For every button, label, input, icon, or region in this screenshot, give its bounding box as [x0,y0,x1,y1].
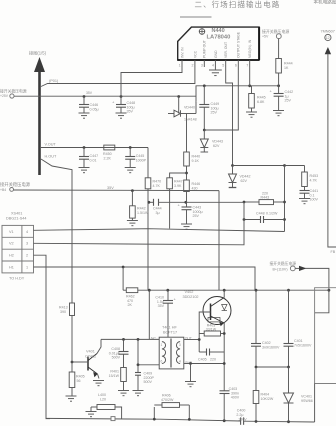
svg-text:T401 HF: T401 HF [162,326,177,330]
resistor R447 3.9K [167,178,183,229]
wire rail jog up to 85.8 [196,86,279,97]
ground below R442 [127,221,138,226]
title 行场扫描输出电路 [195,0,336,9]
node junction dots on +25V rail [83,84,280,98]
node dot [189,362,192,365]
svg-text:R444: R444 [284,62,293,66]
svg-text:15/1W: 15/1W [109,374,120,378]
svg-text:4.7K: 4.7K [310,179,318,183]
wire V402 base left and down [199,312,210,352]
wire V401 collector up to snubber rail [97,339,101,353]
capacitor C403 390n/400V on emitter S line [220,364,240,421]
pin labels of U1 [180,31,252,58]
node dots on x284.5 [283,201,286,221]
svg-text:400V: 400V [231,396,240,400]
wire T401 pin4 GND [184,363,191,365]
svg-text:V.OUT: V.OUT [45,143,57,147]
svg-text:160V: 160V [238,418,247,422]
svg-text:R405: R405 [76,375,85,379]
wire y=367 [256,366,289,368]
capacitor C449 100u/25V [195,100,219,131]
svg-text:VD442: VD442 [240,175,251,179]
svg-text:BCFT17: BCFT17 [163,330,177,334]
resistor R403 33/1W [199,323,224,336]
svg-text:OUTPUT STAGE: OUTPUT STAGE [237,31,241,58]
svg-text:XS401: XS401 [11,212,22,216]
wire pin7 to node [249,67,251,86]
svg-text:C446: C446 [90,103,99,107]
wire (P01) from arrow to pin 2 [41,67,195,87]
ground below R405 [66,396,77,401]
wire down to ground [190,364,192,382]
wire V402 emitter down [191,323,225,364]
svg-text:3: 3 [179,343,181,347]
svg-text:3n9/1600V: 3n9/1600V [262,345,280,349]
wire x=219 vertical from +B rail down [218,191,220,291]
svg-text:1.5/1W: 1.5/1W [137,211,149,215]
diode VD440 1N4148 with loop to rail [168,97,197,122]
ground at V401 emitter [93,381,104,386]
wire pin5 down and jog [226,67,233,166]
svg-text:VD443: VD443 [212,140,223,144]
svg-text:10K/2W: 10K/2W [261,397,274,401]
wire H.OUT diagonal from arrow shaft [41,159,72,303]
resistor R443 220 [244,192,285,205]
svg-text:接图(1/5): 接图(1/5) [29,50,47,57]
resistor R462 470 [126,288,329,307]
svg-text:0.01: 0.01 [90,158,97,162]
node dot at VD442 top [231,164,234,167]
capacitor C444 1u [149,199,244,215]
resistor R445 1.5K [249,86,266,112]
wire V401 base from x71 line [72,361,88,363]
resistor R405 56 [69,362,84,396]
resistor R450 2.2K [103,145,115,160]
svg-text:接开关稳压电源: 接开关稳压电源 [262,29,289,34]
capacitor C448 100u/35V [112,97,135,114]
wire V401 emitter to ground [98,374,100,379]
svg-text:二、行场扫描输出电路: 二、行场扫描输出电路 [195,0,281,9]
capacitor C400 2.2u/160V in series on bus [236,409,247,425]
svg-text:100V: 100V [310,198,319,202]
svg-text:+B4: +B4 [0,188,6,192]
wire x=138 to T401 pin6 [138,339,159,364]
svg-text:500V: 500V [144,380,153,384]
svg-text:7MN607: 7MN607 [321,30,335,34]
svg-text:56: 56 [77,379,81,383]
svg-text:NC: NC [151,337,156,341]
svg-text:L400: L400 [98,393,106,397]
svg-text:25V: 25V [285,99,292,103]
bottom bus wire [46,418,315,422]
resistor R446 430 [184,180,200,207]
svg-text:1: 1 [161,343,163,347]
svg-text:35V: 35V [127,110,134,114]
resistor R442 1.5/1W [130,191,149,221]
ground below C441 [299,199,310,204]
wire x=284.5 vertical 165.5 to 231.5 [284,166,286,232]
svg-text:C448: C448 [256,212,265,216]
node dot emitter branch [223,362,226,365]
svg-text:V1: V1 [9,230,14,234]
svg-text:VD440: VD440 [184,106,195,110]
svg-text:1: 1 [26,265,28,269]
svg-text:35V: 35V [86,91,93,95]
svg-text:0.1/2W: 0.1/2W [266,212,278,216]
svg-text:6: 6 [161,360,163,364]
capacitor C445 1000P [125,148,146,168]
node dot R440 bottom [185,172,188,175]
svg-text:C405: C405 [198,358,207,362]
resistor R406 470/2W [154,394,189,419]
svg-text:H2: H2 [9,254,14,258]
ground below C443 [181,224,192,229]
svg-text:C2482: C2482 [85,354,96,358]
svg-text:2.2μ: 2.2μ [236,413,243,417]
node dot base junction [198,338,201,341]
inductor L400 [91,393,122,419]
transformer T401 BCFT17 [151,326,193,369]
terminal 7MN607 pin 12 [321,30,335,55]
svg-text:R440: R440 [192,155,201,159]
svg-text:2K: 2K [128,303,133,307]
svg-text:3: 3 [201,64,203,68]
svg-text:3: 3 [26,242,28,246]
wire y=130 pin3 pump to pin6 [204,70,238,130]
svg-text:4: 4 [179,360,181,364]
svg-text:2: 2 [26,254,28,258]
capacitor C402 3n9/1600V [251,290,280,367]
wire x=149.3 down to T401 [148,290,150,339]
title underline [180,16,212,18]
wire right edge vertical from terminal [328,54,336,248]
wire base rail y=290.2 [123,289,126,291]
wire +25V rail [14,95,196,97]
wire V.OUT from arrow shaft [41,147,148,149]
ground below C445 [125,168,136,173]
svg-text:3.9K: 3.9K [174,184,182,188]
resistor R440 9.1K chain from VD440 [184,114,200,181]
resistor R401 15/1W [109,368,127,391]
wire row H1/1 to collector node [34,267,256,290]
wire branch down to R462 [122,267,124,290]
svg-text:5: 5 [222,64,224,68]
svg-text:500V: 500V [112,356,121,360]
node dot base [71,361,74,364]
svg-text:R442: R442 [137,207,146,211]
svg-text:4: 4 [212,64,214,68]
transistor V402 3DD2102 [183,290,232,326]
svg-text:NEG(IN). IN: NEG(IN). IN [248,39,252,58]
ground below T401 [185,382,196,387]
svg-text:L20: L20 [100,398,106,402]
wire pin1 to +25V rail [121,67,182,97]
ground below C442 [273,111,284,116]
wire y=173 to R447 top [170,173,187,178]
svg-text:V401: V401 [86,350,95,354]
wire row V2/3 up to C448b [34,220,245,245]
node dots on +B rail [131,189,134,192]
node dots on y202 wire [148,201,188,204]
resistor R444 1K [276,39,293,86]
node dot H1 branch [122,266,125,269]
svg-text:1K: 1K [284,66,289,70]
flyback transformer box (cut by page edge) [315,288,336,384]
resistor R470 4.7K [145,178,161,290]
svg-text:2: 2 [192,64,194,68]
ground below R401 [118,391,129,396]
svg-text:62V: 62V [241,179,248,183]
svg-text:R443: R443 [261,196,270,200]
svg-text:R446: R446 [192,182,201,186]
node dots on bus [153,418,290,423]
svg-text:H.OUT: H.OUT [45,155,57,159]
node dots y=367 [255,366,290,369]
svg-text:+5V: +5V [262,35,269,39]
svg-text:R406: R406 [162,394,171,398]
svg-text:VER. OUT: VER. OUT [224,42,228,58]
svg-text:7n5/1600V: 7n5/1600V [294,343,312,347]
power terminal B+(110V) 接开关稳压电源 [270,261,307,272]
zener VD442 62V [229,166,251,188]
svg-text:N440: N440 [212,28,225,34]
svg-text:12: 12 [325,36,329,40]
power terminal +B 接开关稳压电源 [0,181,31,192]
wire pin3 down [203,86,205,105]
node dots on V.OUT wire [83,146,132,149]
node dot [137,363,140,366]
wire y=165.5 to x284.5 [233,165,285,167]
svg-text:INV. IN: INV. IN [180,47,184,58]
ground under pin 4 [209,70,222,76]
svg-text:1000P: 1000P [136,158,147,162]
svg-text:3μ: 3μ [156,211,160,215]
svg-text:1N4148: 1N4148 [184,118,197,122]
svg-text:R470: R470 [153,180,162,184]
svg-text:接开关稳压电源: 接开关稳压电源 [0,181,31,188]
op-amp U1 : IC N440 LA78040 body [178,27,259,60]
svg-text:6.8K: 6.8K [257,100,265,104]
resistor R453 4.7K [283,164,318,190]
svg-text:R453: R453 [310,174,319,178]
node dot emitter junction [223,332,226,335]
svg-text:35V: 35V [158,304,165,308]
capacitor C447 0.01 [79,148,98,168]
capacitor C443 1000u/25V [178,203,203,225]
svg-text:TO H.DY: TO H.DY [9,277,25,281]
svg-text:220: 220 [262,192,268,196]
zener VD443 62V [200,130,223,152]
transistor V401 C2482 [85,350,98,378]
capacitor C441 0.1/100V [300,189,319,202]
svg-text:9.1K: 9.1K [192,159,200,163]
svg-text:220: 220 [210,358,216,362]
svg-text:390: 390 [60,310,66,314]
wire T401 pin3 OUT to base node [184,339,199,341]
node dots on snubber rail [122,338,139,341]
svg-text:62V: 62V [213,144,220,148]
resistor R404 10K/2W [253,367,274,421]
svg-text:PUMP OUT: PUMP OUT [203,40,207,58]
svg-text:1: 1 [179,64,181,68]
svg-text:VCC: VCC [193,50,197,58]
wire x=148 vertical V.OUT down to y290 [147,148,149,178]
svg-text:4.7K: 4.7K [153,184,161,188]
wire x=244 link with dots [243,201,246,221]
pin number labels 1-7 [179,64,249,68]
svg-text:R447: R447 [174,180,183,184]
svg-text:3DD2102: 3DD2102 [183,295,199,299]
svg-text:V2: V2 [9,242,14,246]
damper diode VC401 [284,367,313,422]
svg-text:R450: R450 [103,152,112,156]
ground below C447 [79,168,90,173]
wire B+ jog path [305,268,329,312]
svg-text:7: 7 [246,64,248,68]
wire V402 collector to rail [223,290,225,297]
capacitor C409 2200P/500V [135,365,154,391]
terminal square on bus [111,417,115,421]
wire row V1/4 to right network [34,229,285,232]
svg-text:FB: FB [331,250,336,254]
capacitor C408 0.01uF/500V [109,339,129,367]
svg-text:4: 4 [26,230,28,234]
connector XS401 DBG21-S44 [2,212,34,281]
ground below C446 [79,113,90,118]
svg-text:25V: 25V [211,111,218,115]
svg-text:430: 430 [192,187,198,191]
wire +B rail [14,189,220,192]
ground below R445 [246,112,257,117]
svg-text:470/2W: 470/2W [161,398,174,402]
svg-text:+25V: +25V [0,94,9,98]
capacitor C405 220P [198,349,224,362]
resistor R413 390 [59,303,75,362]
capacitor C442 1u/25V [270,86,294,111]
capacitor C410 1.5u/35V [155,290,176,337]
ground below C448 [116,113,127,118]
power terminal +25V 接开关稳压电源 [0,89,27,98]
svg-text:GND: GND [214,50,218,58]
capacitor C446 0.05u [79,97,99,114]
wire row H2/2 down to bottom bus [34,255,51,418]
svg-text:6: 6 [235,64,237,68]
node dot pin3 line at y130 [203,129,206,132]
svg-text:9SW66: 9SW66 [301,399,313,403]
ground below L400 left lead [86,412,97,417]
arrow to other sheet 接图(1/5) [29,50,47,176]
svg-text:R445: R445 [257,96,266,100]
power terminal +5V 接开关稳压电源 [262,29,289,38]
svg-text:接开关稳压电源: 接开关稳压电源 [270,261,297,266]
svg-text:33/1W: 33/1W [206,328,217,332]
svg-text:LA78040: LA78040 [207,35,231,41]
svg-text:2.2K: 2.2K [104,157,112,161]
svg-text:DBG21-S44: DBG21-S44 [6,217,26,221]
pin stubs of U1 [182,60,250,70]
svg-text:V402: V402 [185,290,194,294]
capacitor C401 7n5/1600V [284,290,312,367]
svg-text:(P01): (P01) [49,79,59,83]
ground below C409 [133,391,144,396]
node dots on y=290.2 wire [148,289,330,292]
wire collector snubber rail y=339.4 [101,338,159,340]
svg-text:25V: 25V [193,214,200,218]
wire FBT return to bus [314,384,316,423]
svg-text:B+(110V): B+(110V) [273,268,288,272]
svg-text:H1: H1 [9,265,14,269]
svg-text:R413: R413 [59,306,68,310]
svg-text:35V: 35V [107,186,114,190]
capacitor C448b 0.1/2W [244,212,285,224]
svg-text:0.05μ: 0.05μ [90,108,99,112]
